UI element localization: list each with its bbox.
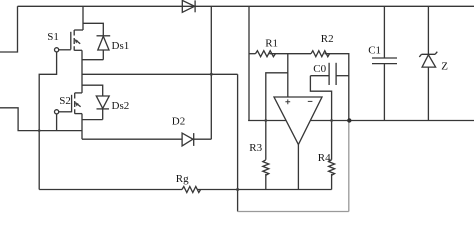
node junction gate line crossing	[38, 129, 41, 132]
svg-text:Ds1: Ds1	[112, 40, 130, 52]
wire plus node branch to R3	[266, 73, 288, 160]
wire midpoint to sense loop vertical	[237, 74, 239, 211]
wire C0 right lead	[336, 75, 349, 77]
svg-text:D2: D2	[172, 116, 185, 128]
svg-text:Z: Z	[441, 61, 448, 73]
node junction R4 riser on rail	[330, 119, 333, 122]
wire S1 gate to bottom rail	[39, 52, 56, 190]
resistor R2	[311, 51, 330, 57]
wire Ds1 top lead	[83, 23, 103, 36]
wire S2 source vertical	[81, 114, 83, 140]
svg-text:R2: R2	[321, 33, 334, 45]
svg-text:C0: C0	[313, 63, 326, 75]
diode D1 on top rail	[182, 0, 195, 12]
wire S2 gate lead	[59, 111, 72, 113]
wire D2 anode line	[82, 138, 182, 140]
wire S1 drain riser	[82, 6, 84, 30]
node junction bottom rail crossing	[236, 188, 239, 191]
resistor Rg	[182, 187, 201, 193]
wire R1 to R2	[269, 53, 311, 55]
wire S1 gate lead	[59, 49, 71, 51]
zener diode Z	[419, 6, 437, 120]
wire minus node to R4	[310, 76, 331, 160]
wire S1 source / S2 drain vertical	[81, 50, 83, 93]
wire C0 left lead from minus node	[310, 75, 329, 77]
node junction R3 riser on rail	[264, 119, 267, 122]
svg-text:Ds2: Ds2	[112, 100, 130, 112]
wire left input stub upper	[0, 6, 18, 52]
wire op-amp output	[297, 145, 299, 190]
node junction dot output rail	[347, 118, 351, 122]
wire midpoint node line	[82, 73, 238, 75]
svg-text:C1: C1	[368, 45, 381, 57]
svg-text:S2: S2	[59, 95, 71, 107]
capacitor C1	[372, 6, 397, 120]
wire top rail	[18, 5, 474, 7]
wire Ds2 top lead	[82, 85, 103, 96]
node S2 gate terminal	[55, 110, 59, 114]
node S1 gate terminal	[55, 48, 59, 52]
diode Ds1	[97, 36, 111, 60]
wire output rail	[248, 120, 474, 122]
wire op-amp plus input	[287, 54, 289, 97]
wire R2 right lead down	[325, 54, 349, 121]
wire sense loop bottom gray	[238, 211, 349, 213]
wire left input stub lower	[0, 108, 82, 131]
capacitor C0	[329, 63, 336, 85]
wire R3 bottom lead	[265, 174, 267, 190]
wire D2 cathode to top rail	[194, 6, 212, 139]
diode D2	[182, 133, 194, 146]
resistor R1	[255, 51, 275, 57]
wire bottom rail	[39, 189, 182, 191]
node junction midpoint and D2 riser	[210, 73, 213, 76]
svg-text:S1: S1	[47, 31, 59, 43]
wire S2 gate drop	[56, 114, 58, 131]
transistor S1	[71, 30, 83, 51]
svg-text:Rg: Rg	[176, 173, 189, 185]
resistor R3	[263, 160, 269, 175]
wire R1 left lead	[249, 53, 255, 55]
wire bottom rail right	[198, 189, 332, 191]
svg-text:R3: R3	[249, 142, 262, 154]
op-amp U1	[274, 97, 322, 145]
svg-text:R1: R1	[265, 38, 278, 50]
transistor S2	[72, 93, 82, 114]
wire Ds1 bottom lead	[82, 59, 103, 61]
wire riser from top rail to R1 node	[248, 6, 250, 120]
wire Ds2 bottom lead	[82, 119, 103, 121]
wire sense loop right gray	[348, 121, 350, 212]
diode Ds2	[96, 96, 109, 120]
resistor R4	[329, 160, 335, 175]
wire R4 bottom lead	[331, 174, 333, 190]
svg-text:R4: R4	[318, 152, 331, 164]
